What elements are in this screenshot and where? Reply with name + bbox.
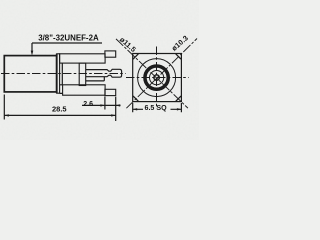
vertical centerline xyxy=(156,47,158,109)
dim 2.6 line with arrows xyxy=(82,104,121,106)
outer circle xyxy=(138,59,176,97)
horizontal centerline xyxy=(126,77,189,79)
front view square flange xyxy=(133,54,182,102)
svg-text:3/8"-32UNEF-2A: 3/8"-32UNEF-2A xyxy=(38,33,98,43)
dim 28.5 extension line xyxy=(3,95,5,120)
bottom mounting leg xyxy=(63,85,106,95)
dim 6.5 SQ line xyxy=(133,108,182,110)
bottom leg inner edge to flange and web step xyxy=(60,85,63,94)
inner circle xyxy=(150,71,164,85)
diagonal centerline TL-BR with leader for dia 11.5 xyxy=(116,39,188,108)
connector body (side view) xyxy=(4,56,56,92)
center contact with neck and bulb tip xyxy=(86,69,122,77)
dim 6.5 SQ extension lines xyxy=(133,103,182,112)
svg-text:6.5 SQ: 6.5 SQ xyxy=(145,104,168,112)
ring band circle xyxy=(145,66,168,89)
corner tick BR xyxy=(176,96,181,101)
thread callout leader xyxy=(32,43,102,51)
flange plate edge-on xyxy=(57,54,60,93)
svg-text:2.6: 2.6 xyxy=(83,101,93,108)
side view centerline xyxy=(1,73,126,75)
corner tick BL xyxy=(133,96,138,101)
center pin circle xyxy=(154,75,159,80)
connector technical drawing xyxy=(0,0,199,140)
legs base web inner edge xyxy=(61,63,63,85)
top leg end tab xyxy=(105,51,116,57)
svg-text:28.5: 28.5 xyxy=(52,105,67,114)
dim 2.6 extension lines xyxy=(105,97,116,122)
diagonal centerline BL-TR with leader for dia 10.3 xyxy=(126,39,197,109)
flange front edge thick xyxy=(56,54,58,93)
socket barrel line xyxy=(86,77,105,81)
bottom leg end tab xyxy=(105,89,116,95)
top mounting leg xyxy=(60,54,106,63)
corner tick TL xyxy=(133,54,138,59)
corner tick TR xyxy=(176,54,181,59)
ring outer circle xyxy=(144,65,170,91)
dim 28.5 line with arrows xyxy=(4,114,115,116)
insulator plate xyxy=(79,63,86,85)
